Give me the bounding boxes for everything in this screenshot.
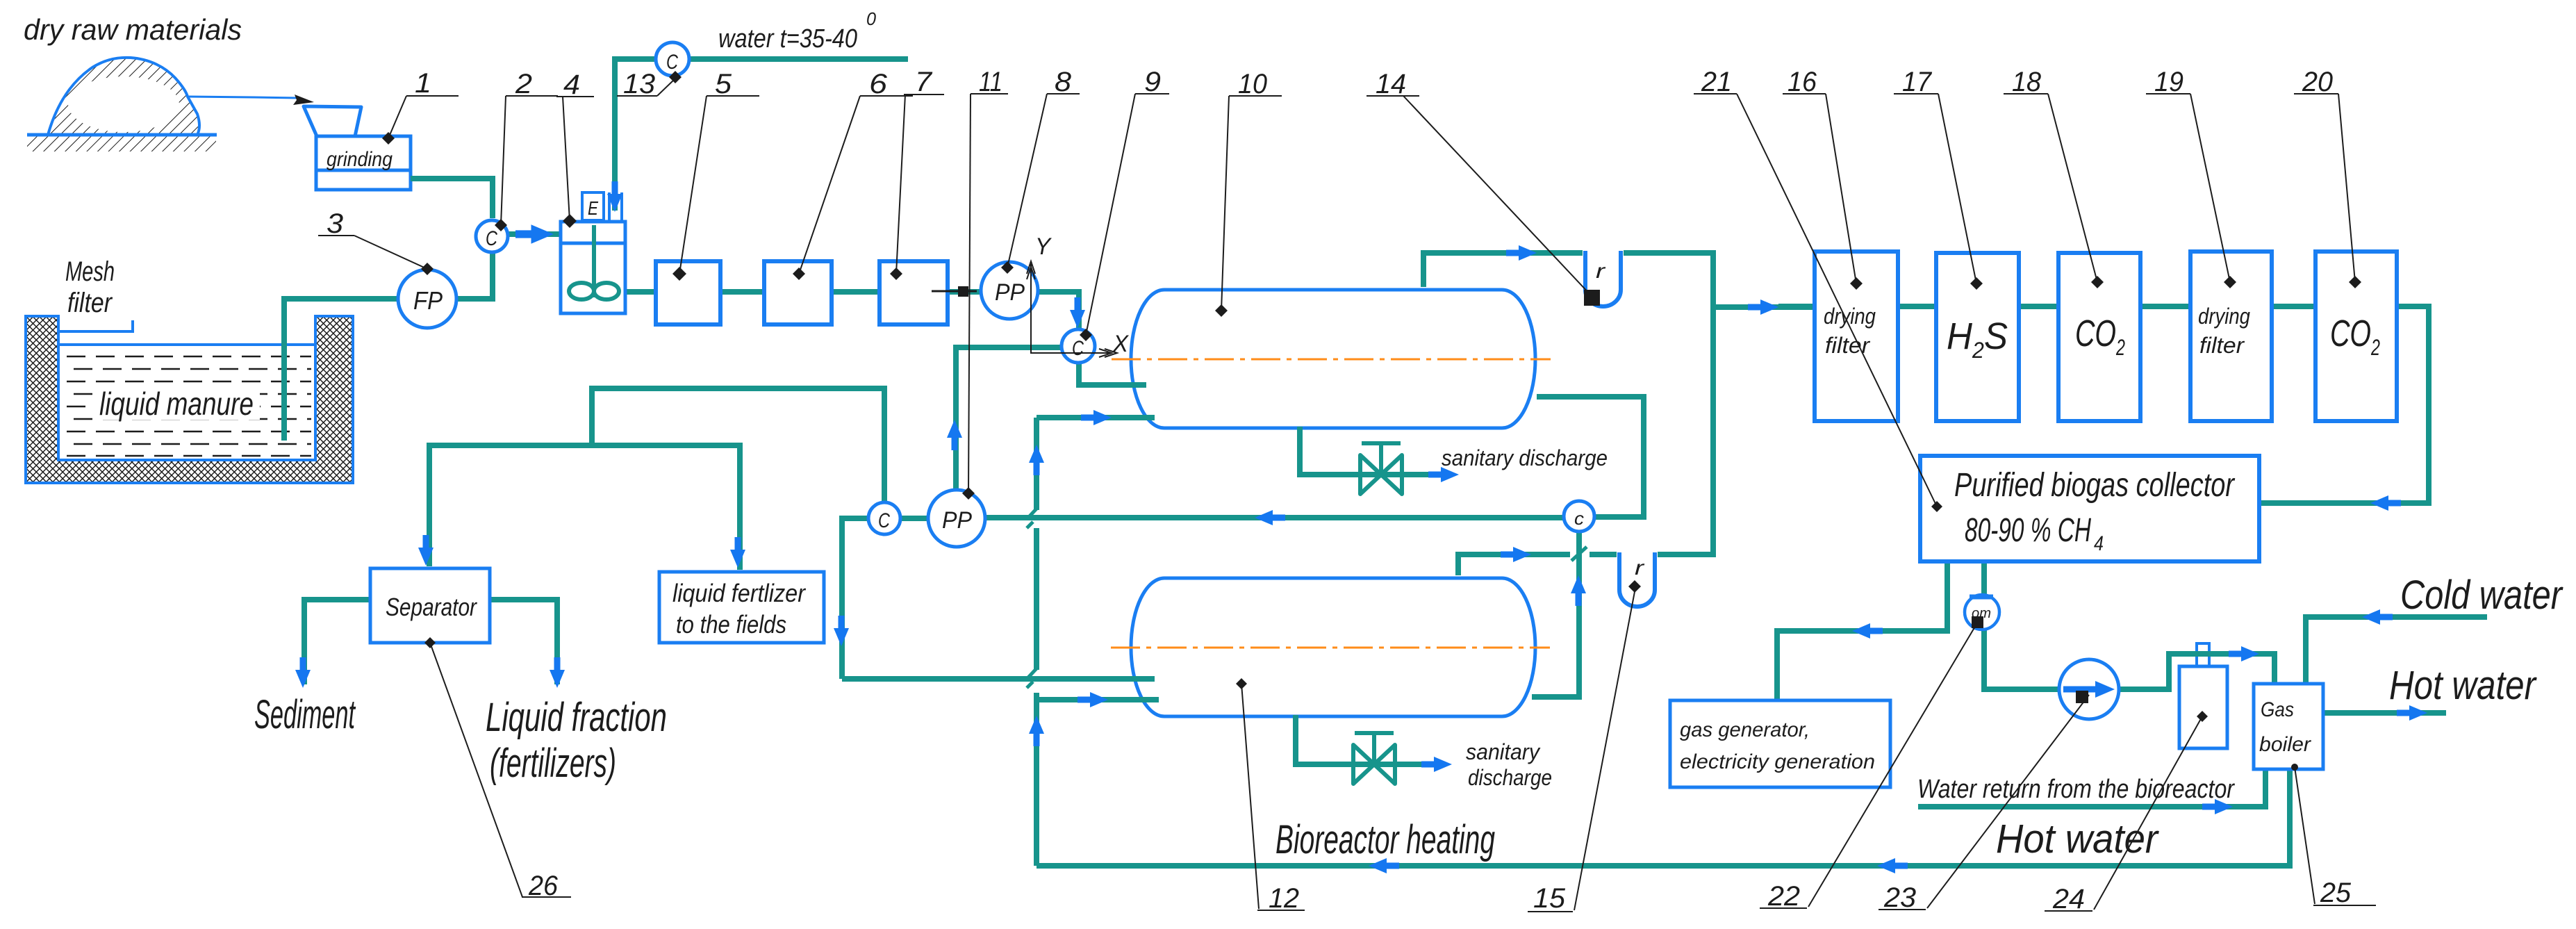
leader 8: [1007, 94, 1047, 268]
wire: pump 11 up to valve 9 recirc: [956, 347, 1064, 488]
callout numbers: [327, 67, 2352, 914]
arrow down water line: [607, 181, 622, 212]
leader 11: [968, 94, 971, 493]
dot 20: [2349, 276, 2361, 288]
leader 16: [1826, 94, 1856, 283]
svg-text:water t=35-40: water t=35-40: [718, 24, 857, 54]
wire: heating riser branch into tank 10: [1037, 415, 1155, 420]
wire: tank 10 drain to valve: [1300, 427, 1435, 475]
svg-text:filter: filter: [67, 288, 113, 318]
svg-text:2: 2: [515, 69, 532, 99]
svg-text:Y: Y: [1035, 233, 1052, 260]
wire: pump 8 outlet down through valve 9: [1037, 292, 1079, 329]
svg-text:Cold water: Cold water: [2400, 573, 2563, 618]
wire: valve c right to tank 10 outlet: [1537, 397, 1644, 517]
liquid surface line: [58, 343, 315, 346]
arrow down valve 9 feed: [1070, 297, 1085, 328]
arrow left cold water: [2362, 609, 2393, 625]
wire: separator feed and outlets: [304, 600, 557, 684]
svg-text:Hot water: Hot water: [1996, 816, 2160, 862]
leader 23: [1927, 695, 2089, 908]
dot 10: [1215, 304, 1228, 317]
svg-text:grinding: grinding: [327, 148, 393, 171]
leader 5: [679, 96, 707, 274]
wire: pump FP to pit dip pipe: [284, 296, 397, 441]
gas trap 1 (r): [1585, 251, 1621, 306]
svg-text:24: 24: [2052, 884, 2085, 914]
dot 12: [1236, 678, 1247, 689]
wire: gas trap 2 stubs: [1658, 552, 1710, 557]
wire: valve C2 down to pump FP: [457, 253, 493, 299]
svg-text:10: 10: [1238, 69, 1267, 99]
dot 19: [2224, 276, 2236, 288]
dot 26: [424, 637, 436, 648]
pump PP 11: [928, 490, 985, 547]
svg-text:0: 0: [866, 8, 877, 29]
svg-text:9: 9: [1144, 67, 1161, 97]
CO2 column 18: [2058, 253, 2140, 421]
dry raw materials pile: [27, 58, 217, 135]
svg-text:18: 18: [2012, 67, 2042, 97]
svg-text:(fertilizers): (fertilizers): [490, 741, 616, 786]
wire: branch header above pumps: [592, 388, 884, 501]
arrow up tank 12 outlet: [1571, 575, 1586, 606]
valve C 2: [476, 220, 508, 252]
svg-text:Liquid fraction: Liquid fraction: [486, 695, 667, 740]
filter unit 24: [2170, 643, 2273, 748]
dot 9: [1080, 329, 1092, 341]
motor box E on mixer: [582, 192, 604, 220]
svg-text:Gas: Gas: [2261, 698, 2294, 721]
leader dots: [382, 71, 2361, 771]
svg-text:Purified biogas collector: Purified biogas collector: [1954, 467, 2236, 504]
arrow up heating riser top: [1029, 445, 1044, 475]
drying filter 16: [1815, 252, 1898, 421]
svg-text:Bioreactor heating: Bioreactor heating: [1275, 817, 1495, 862]
arrow right hot water: [2397, 705, 2427, 721]
arrow right into drying filter 16: [1748, 299, 1778, 315]
box 7: [880, 261, 948, 324]
svg-text:8: 8: [1055, 67, 1072, 97]
grinder hopper (1): [304, 106, 411, 190]
svg-text:c: c: [1574, 508, 1584, 529]
arrow into mixer: [515, 224, 554, 244]
svg-text:dry raw materials: dry raw materials: [24, 13, 242, 46]
leader 9: [1086, 94, 1135, 335]
water dashes: [67, 356, 311, 456]
svg-text:13: 13: [623, 69, 655, 99]
arrow down liquid fraction: [550, 657, 565, 688]
mesh filter marker: [58, 320, 133, 331]
svg-text:19: 19: [2154, 67, 2183, 97]
arrow right tank 10 gas: [1506, 245, 1537, 261]
leader 24: [2094, 716, 2202, 910]
wire: mixer stirrer shaft: [592, 224, 596, 297]
valve C at recirculation: [868, 502, 900, 534]
svg-text:12: 12: [1269, 883, 1299, 914]
homogenizer box 5: [656, 261, 720, 324]
arrow left into collector: [2370, 495, 2401, 511]
svg-text:r: r: [1635, 557, 1644, 579]
wire: heating riser (bottom line up): [1034, 418, 1039, 866]
dot 18: [2091, 276, 2104, 288]
svg-text:X: X: [1112, 331, 1129, 357]
leader 18: [2048, 94, 2097, 282]
wire: pump 23 to gas boiler over filter 24: [2118, 654, 2274, 689]
svg-text:electricity generation: electricity generation: [1680, 750, 1875, 773]
wire: gas trap 1 stubs: [1624, 250, 1713, 256]
dot 24: [2197, 711, 2208, 722]
drain valve 2: [1353, 733, 1395, 784]
leader 21: [1737, 94, 1937, 507]
wire: valve C2 to mixer inlet: [508, 231, 559, 237]
leader 17: [1938, 94, 1976, 283]
dot 23: [2076, 691, 2088, 703]
bioreactor 10 (upper tank): [1131, 290, 1535, 428]
svg-text:Hot water: Hot water: [2389, 663, 2537, 708]
svg-text:14: 14: [1376, 69, 1406, 99]
wire: hot water outlet: [2325, 710, 2446, 716]
wire: tank 12 gas offtake: [1458, 554, 1617, 575]
svg-text:7: 7: [915, 67, 933, 97]
svg-text:liquid manure: liquid manure: [99, 386, 254, 422]
svg-text:drying: drying: [1824, 304, 1876, 329]
svg-text:sanitary discharge: sanitary discharge: [1442, 445, 1608, 470]
arrow down fertilizer feed: [730, 537, 745, 568]
wire: water return from bioreactor: [1918, 771, 2265, 807]
leader 26: [430, 643, 522, 897]
purified biogas collector 21: [1920, 456, 2259, 561]
svg-text:4: 4: [2094, 532, 2104, 555]
centerline tank 10: [1112, 359, 1551, 361]
wire: heating branch into tank 12: [1037, 697, 1159, 702]
svg-text:E: E: [588, 197, 598, 219]
box 6: [764, 261, 832, 324]
junction mark on feed pipe: [932, 286, 977, 297]
svg-text:FP: FP: [413, 286, 443, 315]
leader 22: [1808, 622, 1978, 907]
leader lines: [318, 79, 2376, 912]
svg-text:26: 26: [528, 871, 559, 901]
wire: cold water inlet: [2306, 617, 2487, 682]
leader 20: [2338, 94, 2355, 282]
leader 6: [799, 96, 860, 274]
bioreactor 12 (lower tank): [1131, 578, 1535, 716]
svg-text:C: C: [486, 227, 497, 250]
wire: tank 12 drain to valve: [1296, 715, 1428, 764]
svg-text:Sediment: Sediment: [254, 692, 356, 737]
svg-text:25: 25: [2320, 878, 2352, 908]
arrow left bottom heating main 1: [1369, 858, 1399, 873]
liquid fertilizer box: [659, 572, 824, 643]
arrow left bottom heating main 2: [1877, 858, 1908, 873]
axis X Y at valve 9: [1027, 261, 1117, 357]
dot 16: [1850, 277, 1863, 290]
leader 3: [354, 236, 427, 269]
wire: mixer outlet to homogenizer 5: [625, 289, 657, 295]
ground strip under pile: [27, 135, 216, 151]
arrow left to gas generator: [1852, 623, 1883, 639]
H2S filter 17: [1936, 253, 2019, 421]
wire: warm water line t=35-40: [615, 59, 908, 211]
dot 13: [669, 71, 682, 83]
leader 12: [1241, 684, 1259, 909]
arrow right heating into tank 10: [1081, 410, 1112, 425]
leader 1: [388, 96, 406, 138]
arrow right water return: [2202, 799, 2233, 814]
leader 10: [1221, 96, 1229, 311]
arrow down valve CE leg: [834, 616, 849, 646]
mixer tank 4: [561, 222, 625, 313]
arrow right drain valve 1 outlet: [1428, 467, 1459, 482]
svg-text:80-90 % CH: 80-90 % CH: [1965, 512, 2091, 549]
svg-text:PP: PP: [995, 279, 1025, 306]
svg-text:r: r: [1596, 260, 1605, 283]
leader 7: [896, 94, 905, 274]
gas boiler 25: [2254, 684, 2323, 769]
svg-text:21: 21: [1701, 67, 1732, 97]
wire: process row 5-6-7 to pump 8: [719, 289, 982, 295]
arrow right tank 12 gas: [1501, 547, 1531, 562]
wire: collector to gas generator: [1777, 560, 1947, 699]
gas generator box: [1670, 700, 1890, 787]
dot 17: [1970, 277, 1983, 290]
wire: gas line through purification filters: [1778, 304, 2397, 309]
leader 14: [1403, 96, 1591, 295]
wire: filter 20 to collector: [2261, 306, 2429, 503]
wire: valve 9 into bioreactor 10 lower inlet: [1079, 363, 1146, 385]
dot 11: [962, 487, 975, 500]
centerline tank 12: [1111, 647, 1550, 649]
valve C 9: [1062, 329, 1095, 363]
arrow down sediment: [295, 657, 311, 688]
svg-text:gas generator,: gas generator,: [1680, 718, 1810, 741]
gas meter om 22: [1965, 595, 1999, 630]
svg-text:to the fields: to the fields: [676, 610, 786, 639]
leader 15: [1574, 584, 1636, 910]
pump PP 8: [981, 262, 1038, 319]
svg-text:4: 4: [563, 69, 580, 100]
arrow up pump 11 riser: [947, 420, 962, 450]
wire: feed arrow pile to grinder: [188, 94, 314, 105]
arrow left recirculation return: [1255, 510, 1285, 525]
dot 22: [1972, 616, 1983, 628]
svg-text:C: C: [1072, 337, 1084, 360]
wire: boiler to bottom heating main: [1037, 771, 2290, 866]
CO2 column 20: [2315, 252, 2397, 421]
leader 25: [2295, 767, 2315, 904]
svg-text:6: 6: [869, 69, 888, 99]
mixer inlet neck: [609, 192, 622, 222]
svg-text:Mesh: Mesh: [65, 256, 115, 287]
svg-text:23: 23: [1883, 882, 1916, 913]
svg-text:Separator: Separator: [386, 593, 478, 621]
pump FP 3: [398, 270, 456, 328]
leader 4: [563, 97, 570, 221]
gas trap 2 (r): [1619, 552, 1655, 607]
svg-text:15: 15: [1533, 883, 1566, 914]
svg-text:PP: PP: [942, 507, 972, 534]
svg-text:C: C: [666, 51, 678, 74]
dot 25: [2291, 764, 2298, 771]
svg-text:boiler: boiler: [2259, 733, 2311, 756]
arrow down separator feed: [418, 535, 434, 566]
valve c mid: [1564, 501, 1594, 532]
gas pump 23: [2059, 659, 2119, 719]
svg-text:16: 16: [1787, 67, 1817, 97]
dot 4: [563, 214, 577, 228]
wire: tank 10 gas offtake: [1423, 253, 1583, 287]
arrow right drain valve 2 outlet: [1421, 757, 1452, 772]
drain valve 1: [1360, 443, 1402, 494]
dot 14: [1584, 290, 1600, 306]
svg-text:20: 20: [2302, 67, 2333, 97]
svg-text:1: 1: [415, 68, 431, 99]
arrow right into boiler top: [2229, 646, 2259, 661]
dot 21: [1931, 501, 1942, 512]
leader 19: [2190, 94, 2230, 282]
dot 15: [1628, 580, 1641, 593]
dot 8: [1001, 261, 1014, 274]
svg-text:5: 5: [715, 69, 732, 99]
svg-text:C: C: [878, 509, 890, 532]
svg-text:discharge: discharge: [1468, 765, 1552, 790]
wire: collector through gas meter to pump 23: [1984, 560, 2060, 689]
dot 7: [890, 268, 902, 280]
svg-text:liquid fertlizer: liquid fertlizer: [672, 579, 807, 607]
dot 1: [382, 132, 395, 145]
arrow up heating riser bottom: [1029, 716, 1044, 746]
svg-text:Water return from the bioreact: Water return from the bioreactor: [1917, 775, 2235, 804]
wire: recirculation return line from valve c to pump 11: [986, 515, 1564, 520]
wire: valve c down to tank 12 outlet: [1532, 532, 1579, 697]
svg-text:11: 11: [979, 67, 1002, 97]
arrow right heating into tank 12: [1078, 692, 1108, 707]
svg-text:sanitary: sanitary: [1466, 739, 1541, 764]
leader 2: [501, 96, 506, 225]
wire: grinder outlet to valve C2: [411, 179, 493, 218]
svg-text:drying: drying: [2198, 304, 2250, 329]
wire: valve CE left leg down to tank 12 feed: [842, 518, 1155, 679]
dot 3: [421, 263, 434, 275]
separator box 26: [370, 568, 490, 643]
svg-text:22: 22: [1767, 881, 1800, 912]
valve C 13 on water line: [656, 42, 689, 76]
dot 6: [793, 268, 805, 280]
wire: valve CE to pump 11: [901, 516, 929, 521]
leader 13: [657, 79, 675, 96]
svg-text:17: 17: [1902, 67, 1933, 97]
wire: fertilizer header: [429, 445, 740, 570]
wire: gas main riser: [1713, 250, 1816, 557]
drying filter 19: [2190, 252, 2272, 421]
dot 5: [672, 267, 686, 281]
dot 2: [495, 219, 507, 231]
svg-text:filter: filter: [2199, 333, 2245, 358]
svg-text:3: 3: [327, 208, 343, 239]
